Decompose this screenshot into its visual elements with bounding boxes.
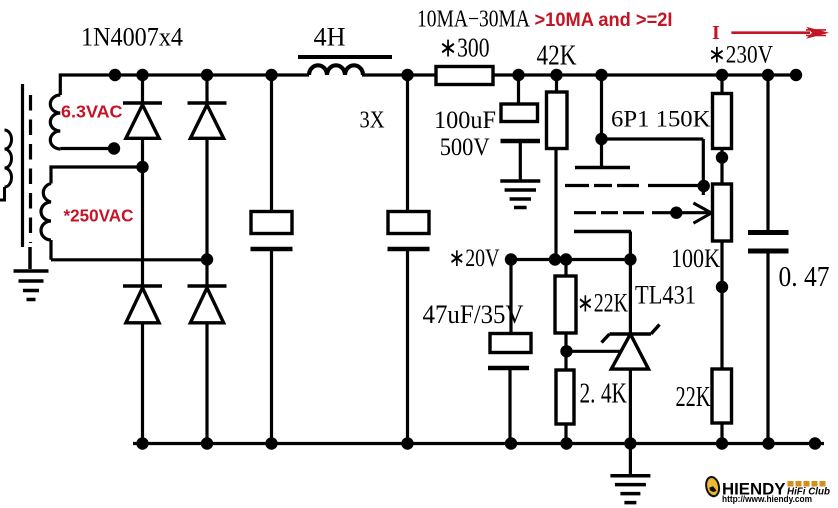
svg-text:4H: 4H (314, 22, 346, 52)
potentiometer R6 100K (713, 184, 732, 241)
wire 47uF cap top stem (509, 260, 512, 334)
logo hiendy ellipse (704, 476, 720, 498)
tube 6P1 cathode (574, 230, 631, 233)
wire 6P1 anode feed horizontal (602, 137, 704, 140)
wire 6.3VAC bottom lead terminal (60, 147, 114, 150)
wire top rail B+ (113, 73, 801, 76)
svg-text:1N4007x4: 1N4007x4 (81, 22, 183, 52)
wire 100uF cap top lead (517, 75, 520, 104)
wire 250VAC bottom lead to D2/D4 junction (51, 240, 207, 260)
svg-text:42K: 42K (537, 40, 577, 71)
resistor R5 150K (713, 94, 732, 149)
logo chinese characters (788, 481, 826, 487)
wire 47uF cap bottom stem (508, 368, 511, 444)
junction dots middle (108, 133, 728, 358)
tube 6P1 plate (575, 166, 630, 169)
wire 150K branch (720, 75, 723, 444)
transformer core dashed line (29, 95, 32, 243)
wire filter cap C2 branch (406, 75, 409, 444)
transformer T1 primary winding (0, 187, 5, 200)
pot wiper arrowhead (693, 203, 711, 223)
wire *22K branch (564, 260, 567, 444)
transformer 250VAC winding (41, 184, 51, 241)
capacitor C2 (388, 212, 430, 250)
svg-text:6P1 150K: 6P1 150K (611, 107, 711, 132)
resistor R2 42K (547, 92, 568, 149)
arrow current direction (731, 27, 829, 39)
wire 100uF cap bottom stem (519, 141, 522, 182)
wire bottom rail 0V (133, 442, 824, 445)
wire D1 branch vertical (141, 75, 144, 444)
wire 42K bottom lead (554, 149, 557, 260)
wire TL431 anode to ground (629, 369, 632, 474)
wire 0.47 cap branch (766, 75, 769, 444)
tube 6P1 screen grid g2 dashed (565, 184, 704, 187)
diode D2 (188, 103, 227, 138)
svg-text:22K: 22K (676, 382, 711, 413)
svg-text:500V: 500V (440, 134, 490, 161)
resistor R3 *22K (555, 276, 576, 333)
capacitor C5 0.47 (748, 233, 789, 252)
TL431 U1 (602, 325, 660, 370)
ground at transformer core (14, 247, 49, 300)
svg-text:3X: 3X (360, 108, 385, 134)
svg-text:TL431: TL431 (635, 279, 696, 309)
wire filter cap C1 branch (270, 75, 273, 444)
svg-text:*250VAC: *250VAC (64, 206, 134, 226)
inductor L1 4H coil (309, 65, 363, 75)
transformer core solid line (21, 84, 24, 247)
wire 6.3VAC top lead to top rail (60, 75, 115, 95)
svg-text:6.3VAC: 6.3VAC (61, 102, 123, 122)
wire 250VAC top lead to D1 anode (51, 167, 143, 184)
inductor L1 core overline (298, 55, 392, 59)
junction dots top rail (109, 69, 802, 81)
resistor R4 2.4K (556, 370, 574, 424)
svg-text:>10MA and >=2I: >10MA and >=2I (535, 10, 673, 31)
wire TL431 ref line (567, 350, 621, 353)
svg-text:∗300: ∗300 (439, 32, 490, 62)
svg-text:∗22K: ∗22K (577, 289, 628, 318)
junction dots bottom rail (136, 437, 821, 449)
wire D2 branch vertical (205, 75, 208, 444)
wire *20V node line (511, 258, 630, 261)
svg-text:0. 47: 0. 47 (779, 262, 830, 293)
tube 6P1 control grid g1 dashed (574, 211, 709, 214)
svg-text:47uF/35V: 47uF/35V (423, 300, 524, 329)
capacitor C3 100uF/500V (501, 104, 541, 141)
wire 42K top lead (555, 75, 558, 92)
ground at 100uF (500, 181, 540, 208)
diode D1 (123, 103, 162, 138)
diode D4 (188, 286, 227, 323)
svg-text:http://www.hiendy.com: http://www.hiendy.com (722, 494, 812, 505)
wire TL431 cathode drop (629, 260, 632, 335)
wire screen junction drop (702, 139, 705, 195)
svg-text:2. 4K: 2. 4K (580, 378, 628, 409)
svg-text:∗230V: ∗230V (708, 41, 773, 68)
ground at TL431 (610, 476, 650, 503)
wire 6P1 plate stem to rail (600, 75, 603, 168)
diode D3 (123, 286, 162, 323)
resistor R1 *300 (436, 67, 493, 85)
resistor R7 22K (712, 369, 732, 423)
svg-text:100K: 100K (671, 244, 720, 273)
svg-text:10MA−30MA: 10MA−30MA (417, 6, 531, 32)
capacitor C1 (251, 212, 293, 250)
wire cathode drop (629, 232, 632, 260)
transformer 6.3VAC winding (50, 95, 60, 149)
svg-text:100uF: 100uF (434, 107, 496, 134)
svg-text:∗20V: ∗20V (449, 245, 500, 272)
capacitor C4 47uF/35V (488, 334, 531, 369)
